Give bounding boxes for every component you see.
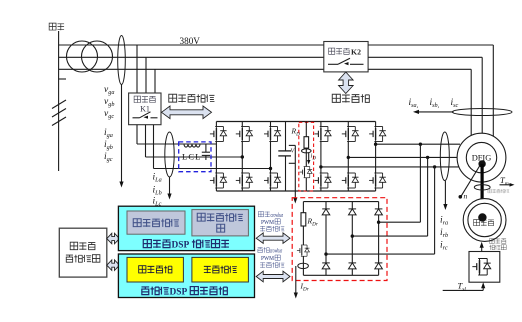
measurement arrow i_D (307, 153, 310, 165)
measurement arrow v_g/i_g (119, 85, 123, 188)
wire K1 to leg2 phase b (146, 125, 243, 157)
label n (464, 192, 468, 201)
rotor-side controller sub-box (192, 210, 249, 236)
contactor K1 label K1 (140, 105, 150, 114)
grid feeder break slashes (52, 100, 66, 126)
label T_sl (458, 281, 467, 293)
contactor K2 switch symbol (328, 58, 364, 65)
label i_rb (440, 228, 448, 239)
label 发电机DSP控制系统 (143, 240, 229, 251)
measurement arrow i_L (167, 177, 171, 200)
svg-text:380V: 380V (180, 36, 201, 46)
wire rotor phase a to DFIG (374, 143, 460, 146)
label 原动机变流器 (489, 238, 506, 249)
label 原动机DSP控制系统 (141, 287, 227, 298)
wire K1 to LCL phase a (137, 125, 216, 144)
label 直流crowbar PWM和 故障信号 (258, 212, 283, 219)
IGBT Q1 top (210, 127, 227, 142)
prime mover converter box (469, 252, 500, 283)
label i_D (311, 153, 317, 162)
diode D4 bottom (322, 263, 330, 269)
prime mover DSP system box (118, 254, 254, 298)
wire crowbar bridge leg 1 (325, 202, 327, 276)
wire rotor tap a down (419, 144, 421, 222)
wire crowbar bridge leg 2 (351, 202, 353, 276)
diode D6 bottom (375, 263, 383, 269)
wire grid vertical feeder (59, 31, 66, 171)
wire crowbar bridge leg 3 (378, 202, 380, 276)
node 380V label (180, 36, 201, 46)
IGBT Q5 top (342, 127, 359, 142)
resistor R_D body (304, 137, 309, 148)
label DFIG (472, 153, 492, 162)
label 转速传感器 (488, 189, 509, 193)
IGBT Q4 top (314, 127, 331, 142)
prime mover hub dot (478, 213, 486, 221)
wire converter leg grid 2 (241, 122, 243, 192)
wire converter leg rotor 3 (375, 122, 377, 192)
diode D3 top (375, 209, 383, 215)
diode D2 top (349, 209, 357, 215)
LCL label (182, 152, 201, 162)
wire converter leg rotor 1 (320, 122, 322, 192)
svg-text:DSP: DSP (170, 287, 188, 297)
label V_dc (291, 149, 296, 155)
label v_gb (104, 97, 114, 108)
arrow converter to prime mover (480, 242, 484, 252)
svg-text:PWM: PWM (261, 255, 274, 262)
wire crowbar DC bottom rail (303, 274, 378, 276)
wire stator drop a (492, 45, 494, 136)
svg-text:K2: K2 (351, 47, 361, 56)
current transformer CT grid ellipse (165, 132, 174, 177)
label i_gb (104, 140, 113, 151)
wire chopper branch bottom (305, 178, 307, 191)
wire converter leg rotor 2 (347, 122, 349, 192)
main controller sub-box (127, 257, 183, 282)
measurement arrow i_s (413, 110, 454, 114)
label 网侧控制器 (box) (133, 219, 179, 227)
wire converter leg grid 1 (215, 122, 217, 192)
grid-side controller sub-box (127, 211, 185, 234)
IGBT Q2 top (236, 127, 253, 142)
wire DC-link capacitor branch (285, 122, 287, 192)
prime mover outer circle (463, 199, 506, 242)
wire chopper branch top (305, 122, 307, 137)
svg-text:LCL: LCL (182, 152, 201, 162)
contactor K2 box (324, 42, 368, 72)
svg-text:crowbar: crowbar (271, 213, 284, 219)
CT ellipse stator (452, 109, 512, 116)
prime mover inner circle (468, 203, 501, 236)
label 上位机 (70, 242, 95, 250)
label I_Dr (300, 282, 310, 293)
IGBT prime mover converter (472, 259, 490, 276)
speed indicator n line (459, 166, 480, 199)
IGBT Q3 top (264, 127, 281, 142)
label v_ga (104, 85, 114, 96)
wire three-phase bus left of K2 (59, 45, 324, 69)
label i_La (153, 173, 162, 184)
IGBT chopper DC (300, 167, 313, 178)
transformer T1 (67, 41, 113, 72)
label i_rc (440, 241, 448, 252)
host PC box 上位机监控系统 (59, 228, 107, 277)
voltage transformer PT ellipse (118, 36, 126, 85)
IGBT Q5b bottom (342, 173, 359, 188)
svg-text:PWM: PWM (261, 219, 274, 226)
measurement arrow I_Dr (294, 266, 298, 299)
IGBT Q2b bottom (236, 173, 253, 188)
label R_Dr (307, 217, 319, 228)
label 主控制器 (332, 94, 369, 102)
signal arrow rotor crowbar (256, 271, 290, 282)
contactor K1 switch symbol (133, 112, 158, 119)
label 转子crowbar PWM和 故障信号 (258, 247, 283, 254)
signal arrow PC to prime mover DSP (107, 260, 120, 271)
capacitor C_dc plates (278, 151, 291, 156)
signal arrow DC crowbar (256, 233, 290, 244)
wire rotor phase c to DFIG (319, 165, 459, 168)
label 原动机 (in circle) (474, 220, 494, 226)
contactor K1 box (129, 93, 161, 125)
DFIG machine inner circle (466, 142, 496, 172)
contactor K2 label 接触器K2 (329, 47, 361, 56)
diode D1 top (322, 209, 330, 215)
wind turbine model sub-box (192, 257, 249, 282)
wire three-phase bus right of K2 (368, 45, 493, 69)
wire crowbar phase b left (351, 234, 428, 237)
shaft DFIG to prime mover (481, 164, 484, 220)
LCL inductor coil (184, 144, 200, 147)
wire crowbar chopper branch (302, 202, 304, 276)
CT ellipse rotor (440, 132, 449, 181)
label i_sa i_sb i_sc (409, 98, 419, 109)
label 网侧控制器 (top) (169, 94, 215, 102)
signal arrow K2 to main controller (339, 72, 354, 94)
LCL capacitor (202, 144, 210, 160)
signal arrow grid-side controller (162, 106, 212, 119)
wire crowbar phase c left (324, 252, 434, 255)
signal arrow PC to generator DSP (107, 233, 120, 244)
DFIG machine outer circle (457, 133, 506, 182)
diode D5 bottom (349, 263, 357, 269)
wire DC bus top rail (216, 121, 375, 123)
DC chopper dashed box (299, 122, 314, 191)
measurement arrow i_r (443, 181, 447, 210)
svg-text:K1: K1 (140, 105, 150, 114)
wire crowbar DC top rail (303, 201, 378, 203)
label v_gc (104, 109, 114, 120)
arrow T_m (500, 183, 515, 187)
label 风机模型 (204, 266, 237, 273)
label R_D (291, 127, 301, 138)
IGBT Q3b bottom (264, 173, 281, 188)
svg-text:n: n (464, 192, 468, 201)
wire rotor phase b to DFIG (347, 156, 458, 159)
IGBT Q1b bottom (210, 173, 227, 188)
wire DC bus bottom rail (216, 190, 375, 192)
label i_ra (440, 216, 448, 227)
label 转子侧控制器 (box) (197, 213, 243, 232)
wire stator drop b (481, 57, 483, 133)
IGBT crowbar (297, 245, 310, 256)
wire converter leg grid 3 (270, 122, 272, 192)
label i_Lc (153, 197, 162, 208)
label i_Lb (153, 186, 162, 197)
node phase b junction grid leg2 (241, 155, 244, 158)
IGBT Q6b bottom (369, 173, 386, 188)
svg-text:crowbar: crowbar (270, 249, 283, 255)
wire K1 to leg3 phase c (154, 125, 271, 169)
resistor R_Dr body (301, 213, 306, 226)
label 监控系统 (66, 255, 100, 263)
svg-text:DSP: DSP (172, 240, 190, 250)
CT ellipse crowbar I_Dr (298, 263, 309, 268)
CT ellipse chopper i_D (302, 148, 312, 166)
contactor K1 label 接触器 (134, 96, 155, 103)
label i_gc (104, 152, 113, 163)
node grid bus label 电网 (49, 23, 64, 30)
rotor crowbar dashed box (292, 198, 387, 281)
wire crowbar phase a left (377, 221, 421, 224)
label T_m (500, 175, 509, 187)
speed sensor ellipse (474, 185, 490, 190)
wire torque input T_sl (443, 282, 486, 290)
LCL filter dashed box (179, 142, 211, 172)
measurement bracket V_dc (289, 145, 298, 203)
IGBT Q6 top (369, 127, 386, 142)
generator DSP system box (118, 206, 254, 250)
wire rotor tap c down (434, 167, 436, 254)
IGBT Q4b bottom (314, 173, 331, 188)
node phase c junction grid leg3 (269, 167, 272, 170)
label 主控制器 (yellow) (139, 266, 172, 273)
DFIG shaft hub dot (478, 160, 485, 167)
wire rotor tap b down (427, 157, 429, 236)
wire K1 stubs to bus (137, 45, 155, 93)
label i_ga (104, 128, 113, 139)
wire stator drop c (470, 69, 472, 135)
